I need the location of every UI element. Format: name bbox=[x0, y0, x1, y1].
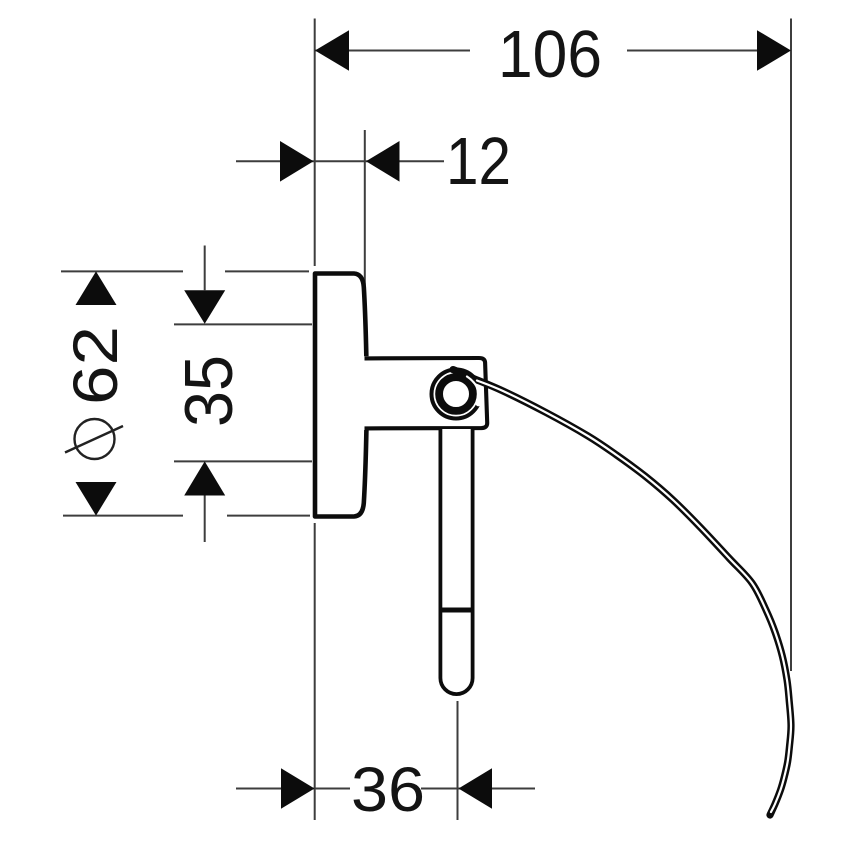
arrowhead 35 bottom bbox=[184, 461, 225, 495]
holder arm outline bbox=[365, 358, 488, 428]
spring wire end stub (white core fork into notch) bbox=[467, 377, 478, 389]
arrowhead 36 right bbox=[459, 768, 493, 809]
dimension line 36 left segment bbox=[236, 788, 350, 790]
arrowhead 62 top bbox=[76, 271, 117, 305]
extension line plate top right part bbox=[225, 270, 309, 272]
diameter symbol bbox=[65, 419, 123, 459]
arrowhead 62 bottom bbox=[76, 482, 117, 516]
spring wire white core bbox=[477, 381, 791, 813]
arrowhead 106 right bbox=[757, 30, 791, 71]
dimension 35 leader top bbox=[204, 246, 206, 291]
extension line right (wire outermost) bbox=[790, 19, 792, 672]
arrowhead 36 left bbox=[281, 768, 315, 809]
wire end white wedge notch bbox=[476, 380, 480, 403]
extension line hole pitch top bbox=[174, 323, 312, 325]
arrowhead 12 right bbox=[366, 141, 400, 182]
extension line hole pitch bottom bbox=[174, 460, 312, 462]
spring wire band bbox=[453, 370, 791, 815]
svg-text:12: 12 bbox=[446, 124, 511, 199]
pivot ring outer bbox=[432, 370, 481, 419]
svg-text:35: 35 bbox=[171, 355, 247, 427]
dimension line 106 left segment bbox=[315, 50, 470, 52]
arrowhead 12 left bbox=[280, 141, 314, 182]
extension line left (wall face) upper bbox=[314, 19, 316, 267]
extension line plate bottom right part bbox=[227, 515, 310, 517]
svg-text:106: 106 bbox=[498, 17, 602, 92]
dimension line 36 right segment bbox=[421, 788, 535, 790]
extension line rod axis bottom bbox=[457, 701, 459, 820]
wall plate (rosette) bbox=[315, 274, 367, 517]
dimension line 12 bbox=[236, 160, 444, 162]
svg-text:36: 36 bbox=[351, 755, 425, 825]
dimension line 106 right segment bbox=[627, 50, 757, 52]
extension line plate top left part bbox=[61, 270, 183, 272]
extension line plate front face bbox=[364, 130, 366, 291]
svg-text:62: 62 bbox=[61, 326, 131, 405]
support rod bbox=[440, 429, 472, 694]
rod tick mark bbox=[440, 608, 472, 613]
pivot ring annulus bbox=[439, 377, 473, 411]
extension line plate bottom left part bbox=[63, 515, 183, 517]
holder arm fill bbox=[363, 356, 489, 430]
dimension 35 leader bottom bbox=[204, 496, 206, 543]
arrowhead 106 left bbox=[315, 30, 349, 71]
arrowhead 35 top bbox=[184, 290, 225, 324]
extension line left (wall face) lower bbox=[314, 523, 316, 820]
